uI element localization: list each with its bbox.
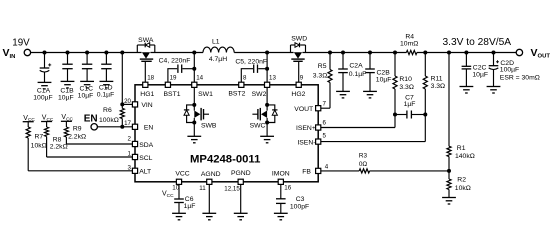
- junction dot (EN node): [120, 125, 124, 129]
- svg-text:ISEN+: ISEN+: [296, 125, 316, 132]
- svg-text:R2: R2: [457, 176, 466, 183]
- svg-text:3.3V to 28V/5A: 3.3V to 28V/5A: [443, 37, 512, 48]
- capacitor C6 (1µF): [174, 184, 184, 213]
- svg-text:18: 18: [147, 74, 154, 81]
- pin 12,15 PGND: [224, 170, 250, 192]
- svg-text:R9: R9: [73, 125, 82, 132]
- ground (C1D): [100, 80, 114, 82]
- svg-text:10µF: 10µF: [472, 71, 488, 78]
- ground (PGND): [234, 212, 248, 214]
- capacitor C2B (10µF): [365, 53, 375, 92]
- power symbol VCC (R9): [61, 114, 74, 122]
- svg-text:13: 13: [269, 74, 276, 81]
- capacitor C1A (100µF, polarized): [40, 53, 52, 83]
- ground (AGND): [202, 212, 216, 214]
- label R5 3.3Ω: [313, 63, 328, 79]
- svg-text:SWD: SWD: [291, 35, 307, 42]
- label C7 1µF: [404, 94, 416, 108]
- pin 2 SDA: [128, 135, 154, 148]
- label R6 100kΩ: [99, 107, 119, 124]
- wire: SWA gate to HG1 pin 18: [144, 61, 146, 82]
- svg-text:0.1µF: 0.1µF: [349, 71, 367, 78]
- pin 14 SW1: [192, 74, 213, 98]
- resistor R7 (10kΩ): [26, 122, 30, 138]
- input terminal VIN (19V): [3, 38, 31, 60]
- svg-text:10kΩ: 10kΩ: [31, 143, 47, 150]
- junction dot (SW2 on rail): [265, 51, 269, 55]
- junction dot (FB node): [447, 169, 451, 173]
- svg-text:SDA: SDA: [139, 142, 153, 149]
- svg-text:3.3Ω: 3.3Ω: [313, 72, 328, 79]
- label C3 100pF: [290, 196, 309, 210]
- svg-text:14: 14: [196, 74, 203, 81]
- svg-text:10µF: 10µF: [376, 76, 392, 83]
- inductor L1 (4.7µH): [203, 47, 234, 52]
- resistor R2 (10kΩ): [447, 171, 451, 198]
- pin 13 SW2: [252, 74, 277, 98]
- wire: SW2 node (rail to pin 13): [266, 53, 268, 83]
- svg-text:0.1µF: 0.1µF: [97, 91, 115, 98]
- pin 11 AGND: [199, 171, 220, 192]
- wire: R3 to FB node: [370, 170, 449, 172]
- svg-text:3.3Ω: 3.3Ω: [431, 83, 446, 90]
- svg-text:IMON: IMON: [272, 171, 290, 178]
- svg-text:3: 3: [128, 164, 132, 171]
- label R3 0Ω: [359, 153, 368, 169]
- svg-text:17: 17: [124, 120, 131, 127]
- label R4 10mΩ: [400, 33, 418, 47]
- wire: PGND pin 12,15 to ground: [240, 184, 242, 213]
- wire: ISEN- pin 5 to C7 right: [321, 115, 425, 142]
- wire: AGND pin 11 to ground: [208, 184, 210, 213]
- junction dot (SW1 on rail): [192, 51, 196, 55]
- svg-text:100pF: 100pF: [290, 203, 309, 210]
- wire: R8 to SCL pin 1: [47, 137, 133, 158]
- label R9 2.2kΩ: [68, 125, 86, 140]
- ground (SWB): [187, 135, 201, 137]
- junction dots on VIN rail: [43, 51, 125, 55]
- pin 10 VCC: [172, 171, 189, 192]
- junction dot (VIN pin node): [120, 102, 124, 106]
- svg-text:100kΩ: 100kΩ: [99, 117, 119, 124]
- capacitor C2D (100µF, polarized): [489, 53, 499, 87]
- svg-text:16: 16: [284, 184, 291, 191]
- resistor R4 (10mΩ current sense): [406, 50, 417, 54]
- wire: VIN rail to VIN pin 20: [122, 53, 132, 105]
- svg-text:SW2: SW2: [252, 91, 267, 98]
- resistor R10 (3.3Ω): [393, 53, 397, 89]
- wire: VIN rail: [31, 52, 203, 54]
- svg-text:ALT: ALT: [139, 169, 151, 176]
- wire: R5 to VOUT pin 7: [321, 83, 330, 109]
- resistor R8 (2.2kΩ): [45, 122, 49, 137]
- svg-text:L1: L1: [212, 39, 220, 46]
- resistor R5 (3.3Ω, VOUT pin): [328, 53, 332, 83]
- label C2D 100µF ESR: [500, 60, 540, 82]
- label R11 3.3Ω: [431, 76, 446, 91]
- transistor SWD (external high-side, with body diode): [291, 43, 306, 62]
- pin 16 IMON: [272, 171, 292, 192]
- wire: R9 to SDA pin 2: [66, 137, 132, 144]
- wire: R11 to C7 node: [424, 89, 426, 115]
- svg-text:HG1: HG1: [140, 91, 154, 98]
- pin 19 BST1: [164, 74, 181, 98]
- wire: SWC source to ground: [266, 123, 268, 137]
- svg-text:ESR = 30mΩ: ESR = 30mΩ: [500, 75, 540, 82]
- svg-text:3.3Ω: 3.3Ω: [399, 84, 414, 91]
- label C2A 0.1µF: [349, 62, 367, 78]
- ground (C2A): [336, 90, 350, 92]
- pin 1 SCL: [128, 151, 153, 162]
- resistor R6 (100kΩ, EN pull-up): [120, 104, 124, 126]
- power symbol VCC (R8): [41, 114, 54, 122]
- svg-text:VIN: VIN: [141, 102, 152, 109]
- ground (C1B): [61, 80, 75, 82]
- junction dots on output rail: [328, 51, 496, 55]
- svg-text:R11: R11: [431, 76, 443, 83]
- label C1A 100µF: [33, 88, 52, 102]
- svg-text:EN: EN: [144, 124, 154, 131]
- label C1D 0.1µF: [97, 85, 115, 99]
- capacitor C2A (0.1µF): [338, 53, 348, 92]
- svg-text:R10: R10: [399, 76, 412, 83]
- ground (R2): [442, 197, 456, 199]
- capacitor C7 (1µF): [395, 111, 425, 119]
- pin 3 ALT: [128, 164, 152, 175]
- pin 8 BST2: [228, 74, 247, 97]
- svg-text:R4: R4: [405, 33, 414, 40]
- svg-text:C2A: C2A: [349, 62, 363, 69]
- label C6 1µF: [184, 196, 196, 210]
- svg-text:4: 4: [325, 163, 329, 170]
- output terminal VOUT (3.3V to 28V/5A): [443, 37, 550, 59]
- svg-text:R1: R1: [457, 145, 466, 152]
- wire: SW2 pin to SWC drain: [266, 88, 268, 105]
- input terminal EN: [84, 114, 98, 130]
- capacitor C1C (10µF): [82, 53, 92, 82]
- svg-text:AGND: AGND: [201, 171, 221, 178]
- wire: FB pin 4 to R3: [321, 170, 359, 172]
- svg-text:C4, 220nF: C4, 220nF: [159, 57, 191, 64]
- label R7 10kΩ: [31, 134, 47, 150]
- svg-text:C5, 220nF: C5, 220nF: [235, 58, 267, 65]
- svg-text:1µF: 1µF: [184, 203, 196, 210]
- svg-text:19: 19: [170, 74, 177, 81]
- ground (C2D): [487, 86, 501, 88]
- svg-text:R5: R5: [318, 63, 327, 70]
- svg-text:10mΩ: 10mΩ: [400, 41, 418, 48]
- transistor SWA (external high-side, with body diode): [137, 43, 155, 62]
- resistor R3 (0Ω): [359, 169, 369, 173]
- label R2 10kΩ: [455, 176, 471, 192]
- svg-text:R3: R3: [359, 153, 368, 160]
- wire: output rail: [302, 52, 516, 54]
- svg-text:2.2kΩ: 2.2kΩ: [50, 144, 68, 151]
- wire: R1 to FB node: [448, 157, 450, 171]
- pin 17 EN: [124, 120, 153, 131]
- label C2B 10µF: [376, 69, 392, 83]
- ground (C6): [172, 212, 186, 214]
- junction dot (C7 left): [393, 113, 397, 117]
- resistor R1 (140kΩ): [447, 53, 451, 157]
- svg-text:2.2kΩ: 2.2kΩ: [68, 133, 86, 140]
- resistor R9 (2.2kΩ): [64, 121, 68, 137]
- capacitor C3 (100pF): [276, 184, 286, 213]
- capacitor C1D (0.1µF): [101, 53, 111, 82]
- svg-text:SCL: SCL: [139, 155, 152, 162]
- svg-text:7: 7: [323, 100, 327, 107]
- pin 4 FB: [302, 163, 329, 175]
- capacitor C1B (10µF): [62, 53, 72, 82]
- svg-text:EN: EN: [84, 114, 98, 125]
- svg-text:6: 6: [323, 120, 327, 127]
- op-amp U1 MP4248-0011 (IC body): [135, 85, 318, 182]
- pin 20 VIN: [124, 98, 153, 109]
- svg-text:R6: R6: [103, 107, 112, 114]
- svg-text:VOUT: VOUT: [294, 106, 313, 113]
- svg-text:BST2: BST2: [228, 90, 245, 97]
- svg-text:4.7µH: 4.7µH: [209, 56, 227, 63]
- svg-text:19V: 19V: [12, 38, 30, 49]
- wire: R7 to ALT pin 3: [28, 138, 132, 171]
- junction dot (C7 right): [423, 113, 427, 117]
- svg-text:10kΩ: 10kΩ: [455, 185, 471, 192]
- ground (SWC): [260, 135, 274, 137]
- label R10 3.3Ω: [399, 76, 414, 91]
- svg-text:100µF: 100µF: [500, 67, 519, 74]
- label C1C 10µF: [78, 86, 94, 100]
- pin 6 ISEN+: [296, 120, 327, 133]
- svg-text:ISEN-: ISEN-: [297, 139, 315, 146]
- svg-text:140kΩ: 140kΩ: [455, 153, 475, 160]
- wire: SWB source to ground: [193, 123, 195, 137]
- svg-text:11: 11: [199, 185, 206, 192]
- svg-text:BST1: BST1: [164, 91, 181, 98]
- label C1B 10µF: [58, 88, 74, 102]
- capacitor C4 (220nF bootstrap): [168, 65, 196, 83]
- ground (C3): [274, 212, 288, 214]
- svg-text:2: 2: [128, 135, 132, 142]
- resistor R11 (3.3Ω): [423, 53, 427, 89]
- wire: EN to pin 17: [97, 126, 132, 128]
- svg-text:C3: C3: [296, 196, 305, 203]
- svg-text:SW1: SW1: [198, 91, 213, 98]
- svg-text:10µF: 10µF: [78, 92, 94, 99]
- pin 5 ISEN-: [297, 132, 326, 146]
- svg-text:SWB: SWB: [201, 123, 217, 130]
- transistor SWB (internal low-side): [184, 103, 209, 125]
- ground (C2C): [460, 86, 474, 88]
- wire: SW2 node rail (L1 to SWD): [234, 52, 293, 54]
- label L1 4.7µH: [209, 39, 227, 64]
- wire: R10 to C7 node: [394, 89, 396, 115]
- svg-text:8: 8: [243, 74, 247, 81]
- wire: SW1 pin to SWB drain: [193, 88, 195, 105]
- svg-text:1µF: 1µF: [404, 101, 416, 108]
- pin 18 HG1: [140, 74, 154, 98]
- capacitor C2C (10µF): [462, 53, 472, 87]
- svg-text:100µF: 100µF: [33, 94, 52, 101]
- pin 7 VOUT: [294, 100, 326, 113]
- svg-text:1: 1: [128, 151, 132, 158]
- svg-text:12,15: 12,15: [224, 185, 240, 192]
- capacitor C5 (220nF bootstrap): [241, 65, 269, 83]
- label R8 2.2kΩ: [50, 136, 68, 150]
- svg-text:5: 5: [323, 132, 327, 139]
- label C2C 10µF: [472, 65, 488, 79]
- label R1 140kΩ: [455, 145, 475, 160]
- wire: ISEN+ pin 6 to C7 left: [321, 115, 395, 128]
- wire: SW1 node (rail to pin 14): [193, 53, 195, 83]
- svg-text:10µF: 10µF: [58, 94, 74, 101]
- wire: SWD gate to HG2 pin 9: [298, 61, 300, 82]
- svg-text:SWA: SWA: [138, 37, 154, 44]
- svg-text:R8: R8: [53, 136, 62, 143]
- svg-text:MP4248-0011: MP4248-0011: [190, 153, 260, 165]
- transistor SWC (internal low-side): [252, 103, 277, 125]
- svg-text:R7: R7: [34, 134, 43, 141]
- svg-text:0Ω: 0Ω: [359, 161, 368, 168]
- svg-text:FB: FB: [302, 169, 311, 176]
- power symbol VCC (R7): [23, 115, 36, 123]
- ground (C2B): [363, 90, 377, 92]
- svg-text:SWC: SWC: [250, 123, 266, 130]
- ground (C1A): [38, 81, 52, 83]
- svg-text:20: 20: [124, 98, 131, 105]
- svg-text:9: 9: [300, 74, 304, 81]
- ground (C1C): [80, 80, 94, 82]
- svg-text:PGND: PGND: [231, 170, 251, 177]
- svg-text:VCC: VCC: [175, 171, 189, 178]
- svg-text:HG2: HG2: [291, 91, 305, 98]
- svg-text:C2B: C2B: [377, 69, 391, 76]
- pin 9 HG2: [291, 74, 305, 98]
